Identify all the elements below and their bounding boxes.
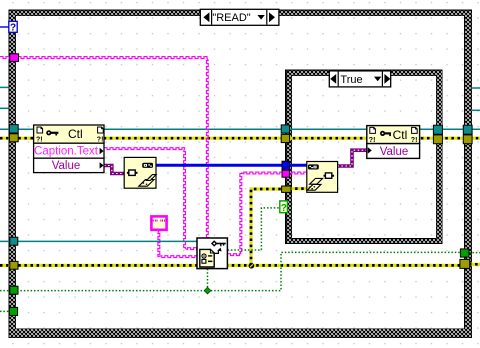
- node U1 page glyph left: [37, 127, 43, 133]
- junction diamond boolean: [204, 287, 211, 294]
- tunnel olive right: [460, 259, 470, 268]
- tunnel teal inner-right: [433, 125, 442, 134]
- tunnel teal inner-left upper: [281, 125, 289, 133]
- wire variant Value node1 to icon A: [104, 166, 124, 174]
- node U2 page glyph right: [412, 127, 418, 133]
- tunnel blue inner-left: [282, 161, 290, 169]
- tunnel olive inner-left upper: [281, 134, 289, 142]
- wire teal refnum stub left lower: [0, 107, 9, 109]
- svg-text:"READ": "READ": [212, 12, 250, 24]
- wire boolean icon B bottom branch: [207, 269, 209, 291]
- svg-text:Value: Value: [52, 160, 81, 172]
- tunnel magenta left: [10, 54, 19, 62]
- tunnel olive right outer: [463, 135, 472, 144]
- string constant empty quotes: [151, 216, 168, 229]
- wire string from magenta tunnel to icon B top: [0, 57, 208, 238]
- subVI icon A variant-to-data: [124, 157, 156, 188]
- tunnel inner selector ? green: [280, 201, 288, 214]
- junction dot error wires: [249, 263, 255, 269]
- node U1 key glyph: [46, 130, 51, 135]
- wire string constant to icon B left: [158, 230, 197, 258]
- tunnel outer selector ?: [9, 21, 17, 33]
- property node U1 Ctl: [34, 125, 104, 173]
- wire teal refnum stub left upper: [0, 86, 9, 88]
- svg-text:"" "": "" "": [151, 219, 168, 228]
- tunnel teal left lower: [10, 237, 18, 245]
- subVI icon B get-key: [197, 238, 227, 269]
- wire error cluster bottom horizontal: [0, 264, 480, 265]
- svg-text:?!: ?!: [36, 137, 43, 144]
- inner case structure True border: [286, 70, 442, 244]
- wire teal refnum main horizontal: [0, 128, 480, 130]
- property node U2 Ctl: [367, 126, 420, 159]
- wire enum blue into outer selector: [0, 26, 9, 28]
- tunnel teal left upper: [9, 125, 18, 133]
- wire boolean icon B right to inner selector: [228, 208, 281, 250]
- svg-text:?: ?: [10, 23, 16, 34]
- tunnel green left upper: [10, 286, 18, 294]
- svg-text:Ctl: Ctl: [68, 127, 83, 141]
- selector label READ: [200, 9, 279, 25]
- wire error segment inner tunnel to icon C: [289, 187, 307, 190]
- tunnel green left lower: [9, 307, 17, 315]
- tunnel green right: [460, 249, 469, 257]
- svg-text:?!: ?!: [97, 137, 104, 144]
- wire teal refnum stub right lower: [471, 109, 480, 111]
- wire string icon B right loop to icon C: [228, 172, 307, 255]
- node U2 page glyph left: [370, 127, 376, 133]
- tunnel magenta inner-left: [282, 170, 289, 177]
- tunnel olive left upper: [9, 134, 18, 142]
- wire teal refnum lower to icon B: [0, 240, 197, 242]
- svg-text:True: True: [340, 74, 362, 86]
- tunnel olive inner-right: [433, 135, 442, 144]
- wire int32 blue thick icon A to icon C: [156, 164, 307, 167]
- subVI icon C data-to-variant: [307, 162, 338, 193]
- svg-text:?: ?: [281, 203, 287, 214]
- selector label True: [329, 71, 390, 87]
- wire error branch vertical to inner olive tunnel: [251, 189, 283, 265]
- wire boolean bottom long run: [0, 252, 480, 290]
- svg-text:Value: Value: [380, 146, 409, 158]
- tunnel olive left lower: [10, 261, 18, 269]
- wire string Caption.Text to icon B left: [104, 148, 197, 250]
- wire boolean stub bottom left: [0, 310, 10, 312]
- svg-text:?!: ?!: [411, 137, 418, 144]
- node U1 page glyph right: [98, 127, 104, 133]
- svg-text:Ctl: Ctl: [393, 128, 408, 142]
- wire error cluster main horizontal: [0, 137, 480, 140]
- svg-text:Caption.Text: Caption.Text: [34, 146, 99, 158]
- node U2 key glyph: [380, 131, 385, 136]
- svg-text:?!: ?!: [369, 137, 376, 144]
- wire variant icon C to node2 Value: [337, 150, 366, 166]
- tunnel teal right outer: [463, 125, 472, 134]
- tunnel olive inner-left lower: [282, 186, 291, 192]
- wire teal refnum stub right upper: [471, 87, 480, 89]
